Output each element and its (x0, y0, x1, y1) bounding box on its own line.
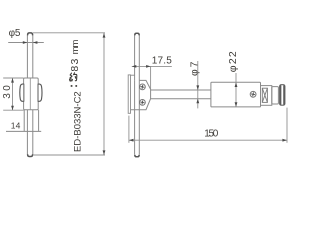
svg-text:83: 83 (69, 58, 81, 72)
svg-text:ED-B033N-C2: ED-B033N-C2 (72, 91, 83, 152)
svg-text:30: 30 (2, 83, 13, 99)
svg-text:φ5: φ5 (9, 28, 21, 39)
svg-text:150: 150 (204, 128, 218, 139)
svg-text:17.5: 17.5 (152, 56, 172, 67)
svg-text:mm: mm (70, 39, 81, 54)
svg-text:14: 14 (11, 121, 21, 131)
svg-text:φ7: φ7 (189, 60, 200, 76)
svg-text:φ22: φ22 (227, 50, 239, 72)
